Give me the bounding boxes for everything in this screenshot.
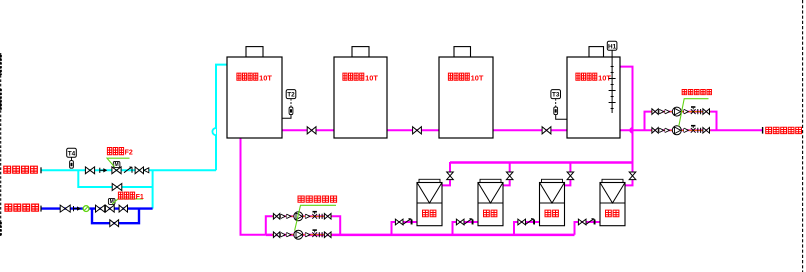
check valve 2 on pressure pump B	[664, 128, 666, 132]
valve (gate) between tanks 1-2	[307, 127, 316, 134]
wire: heat pump HP1 outlet riser	[449, 162, 451, 172]
check valve 3 on circ pump A	[305, 214, 307, 218]
valve (gate) V1 on return main	[85, 167, 94, 174]
valve (gate) end of pressure pump A	[703, 109, 710, 115]
wire: heat pump HP3 suction branch	[514, 222, 540, 235]
tick: return main start	[40, 167, 42, 173]
tank T4 (储热水箱10T)	[567, 47, 620, 138]
valve (gate) end of circ pump B	[324, 232, 331, 238]
valve (gate) on pressure pump A	[652, 109, 658, 115]
valve (gate) on cold main 2	[96, 205, 105, 212]
wire: heat pump HP4 suction branch	[575, 222, 601, 235]
label 热泵循环泵	[298, 196, 304, 202]
wire: cyan drop to cold-water junction	[152, 170, 154, 208]
valve (gate) on cold main	[60, 205, 70, 212]
pump on pressure pump A	[672, 107, 681, 116]
tick: cold main start	[40, 206, 42, 212]
valve (gate) on cyan bypass	[112, 184, 122, 191]
label 出水加压泵	[682, 90, 687, 95]
heat pump unit HP3 (热泵)	[540, 179, 565, 225]
pipe segment (circ pump A branch, orange couplers)	[272, 215, 332, 217]
svg-text:T4: T4	[68, 150, 76, 157]
valve (gate) V2 on return main	[135, 167, 143, 174]
valve (gate) on pressure pump B	[652, 128, 658, 134]
sensor T4 (return water temp)	[67, 148, 77, 168]
valve (gate) between tanks 3-4	[542, 127, 551, 134]
sensor H1 level gauge on tank4	[607, 41, 617, 113]
check valve 3 on pressure pump A	[683, 109, 685, 113]
svg-text:10T: 10T	[471, 74, 484, 83]
valve (gate) on HP2 outlet riser	[506, 172, 513, 180]
spring check on pressure pump B	[691, 125, 695, 127]
wire: heat pump outlet header (top)	[450, 161, 633, 163]
leader line to solenoid F2	[107, 158, 130, 167]
label 接供热水管	[766, 127, 772, 133]
valve (gate) between tanks 2-3	[413, 127, 422, 134]
wire: tank interconnect main (magenta)	[282, 129, 334, 131]
svg-text:F2: F2	[125, 150, 133, 157]
wire: heat pump HP2 suction branch	[453, 222, 479, 235]
valve (gate) on HP3 outlet riser	[567, 172, 574, 180]
svg-text:T3: T3	[552, 92, 560, 99]
tick at HP1 suction entry	[411, 220, 413, 225]
wire: cyan riser to tank 1	[216, 65, 227, 171]
check valve on pressure pump A	[658, 109, 660, 113]
label 接冷水管	[5, 204, 12, 211]
spring check on circ pump B	[313, 229, 317, 231]
leader line to pressure pumps	[679, 99, 709, 127]
valve (gate) on circ pump A	[273, 214, 279, 220]
valve (gate) on HP4 outlet riser	[629, 172, 636, 180]
pump on pressure pump B	[672, 126, 681, 135]
leader line to circulation pumps	[295, 205, 336, 230]
wire: heat pump HP3 outlet riser	[569, 162, 571, 172]
label 电磁阀F1	[118, 192, 143, 201]
tank T1 (储热水箱10T)	[227, 47, 282, 138]
swing check on HP3 suction	[526, 219, 533, 225]
pump on circ pump B	[294, 230, 303, 239]
wire: hot water riser x632 (heat pump outlet to tank4 top)	[631, 128, 633, 173]
tank T2 (储热水箱10T)	[334, 47, 387, 138]
check valve 2 on circ pump B	[286, 233, 288, 237]
wire: heat pump HP4 outlet riser	[625, 180, 633, 186]
heat pump unit HP1 (热泵)	[417, 179, 442, 225]
valve (gate) end of pressure pump B	[703, 128, 710, 134]
svg-text:T2: T2	[287, 92, 295, 99]
spring check on circ pump A	[313, 211, 317, 213]
wire: cold water main (blue)	[41, 207, 153, 209]
heat pump unit HP2 (热泵)	[478, 179, 503, 225]
valve (gate) on cold main 3	[119, 205, 127, 212]
wire: blue bypass loop	[92, 209, 139, 224]
swing check on HP4 suction	[586, 219, 593, 225]
flexible joint on pressure pump B	[698, 128, 701, 133]
check valve 2 on circ pump A	[286, 214, 288, 218]
valve (gate) on HP2 suction	[456, 219, 464, 225]
svg-text:M: M	[110, 199, 114, 205]
heat pump unit HP4 (热泵)	[600, 179, 625, 225]
pump on circ pump A	[294, 212, 303, 221]
flexible joint on circ pump A	[319, 214, 322, 219]
water meter (green circle)	[83, 206, 89, 212]
flexible joint on pressure pump A	[698, 109, 701, 114]
leader line to solenoid F1	[112, 199, 143, 204]
svg-text:F1: F1	[136, 194, 144, 201]
pipe segment (circ pump B branch, orange couplers)	[272, 234, 332, 236]
svg-text:10T: 10T	[365, 74, 378, 83]
label 接回水管	[4, 166, 11, 173]
reducer on return main	[144, 168, 149, 173]
tick at HP3 suction entry	[534, 220, 536, 225]
svg-text:M: M	[115, 162, 119, 168]
tank T3 (储热水箱10T)	[439, 47, 493, 138]
valve (gate) on HP3 suction	[518, 219, 526, 225]
svg-text:H1: H1	[608, 43, 617, 50]
tick at HP2 suction entry	[472, 220, 474, 225]
valve (gate) on HP1 outlet riser	[447, 172, 454, 180]
valve (gate) on circ pump B	[273, 232, 279, 238]
valve (gate) end of circ pump A	[324, 214, 331, 220]
check valve on circ pump A	[280, 214, 282, 218]
pipe segment (pressure pump A branch, orange couplers)	[651, 111, 711, 113]
sensor T2 on tank1	[282, 90, 296, 119]
valve (gate) on HP4 suction	[578, 219, 586, 225]
swing check on HP1 suction	[403, 219, 410, 225]
check valve on circ pump B	[280, 233, 282, 237]
solenoid valve F1 (motorized)	[105, 205, 114, 212]
swing check on return main	[124, 167, 131, 173]
pipe jump arc on cyan riser	[212, 128, 216, 135]
sensor T3 on tank4	[551, 90, 567, 120]
swing check on HP2 suction	[464, 219, 471, 225]
solenoid valve F2 (motorized)	[112, 167, 121, 174]
check valve on return main	[99, 168, 101, 173]
wire: tank4 outlet to pump suction header	[620, 129, 645, 131]
svg-text:10T: 10T	[259, 74, 272, 83]
wire: tank1 bottom outlet drop	[241, 138, 266, 235]
check valve 2 on pressure pump A	[664, 109, 666, 113]
valve (gate) on blue bypass	[110, 220, 119, 227]
wire: supply line end tick	[762, 127, 764, 134]
wire: circulation pump loop	[266, 216, 340, 234]
wire: heat pump HP2 outlet riser	[509, 162, 511, 172]
wire: return water main (cyan)	[41, 169, 216, 171]
spring check on pressure pump A	[691, 106, 695, 108]
wire: heat pump suction header (bottom)	[266, 234, 575, 237]
label 电磁阀F2	[107, 148, 132, 157]
flexible joint on circ pump B	[319, 232, 322, 237]
wire: cyan bypass loop	[78, 170, 152, 187]
check valve on pressure pump B	[658, 128, 660, 132]
check valve on cold main	[73, 206, 75, 211]
pipe segment (pressure pump B branch, orange couplers)	[651, 129, 711, 131]
check valve 3 on pressure pump B	[683, 128, 685, 132]
wire: pressure pump upper branch	[645, 112, 717, 131]
tick at HP4 suction entry	[594, 220, 596, 225]
valve (gate) on HP1 suction	[395, 219, 403, 225]
wire: heat pump HP1 suction branch	[392, 222, 418, 235]
check valve 3 on circ pump B	[305, 233, 307, 237]
